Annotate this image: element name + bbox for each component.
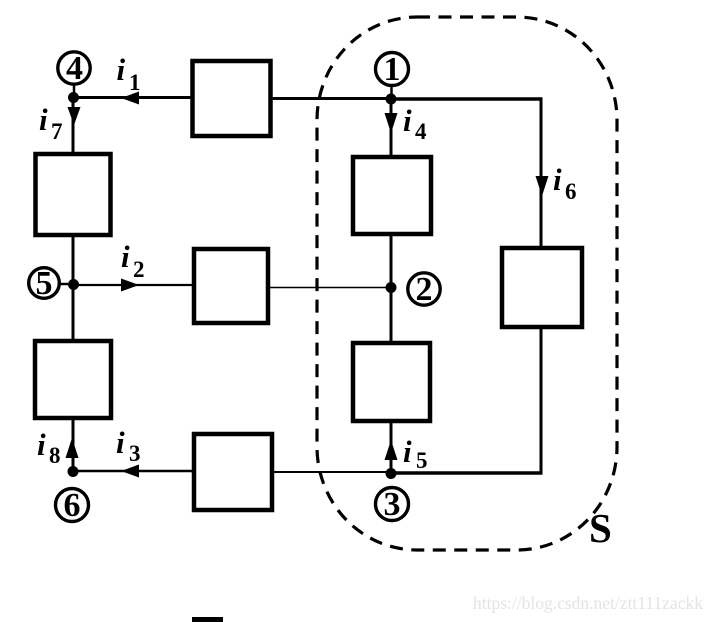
svg-text:i: i (121, 239, 130, 274)
svg-text:S: S (589, 505, 612, 551)
svg-text:6: 6 (565, 179, 577, 204)
node 1 (circled) (376, 51, 409, 94)
cropped figure edge at bottom (192, 617, 223, 622)
svg-text:2: 2 (416, 271, 433, 308)
element box bottom-middle (branch 6-3) (194, 434, 272, 510)
wire node2 down to mid-right lower box (390, 286, 393, 342)
wire bottom-middle box to node6 (73, 470, 192, 473)
svg-text:4: 4 (415, 119, 427, 144)
svg-text:7: 7 (51, 119, 63, 144)
wire node5 down to left-bottom box (72, 284, 75, 340)
svg-text:3: 3 (129, 441, 141, 466)
element box left-bottom (branch 5-6) (35, 341, 111, 418)
element box mid-right lower (branch 2-3) (353, 343, 430, 421)
wire right branch down to right box (540, 98, 543, 249)
wire mid-right upper box to node2 (390, 235, 393, 288)
current arrow i2 (pointing right from node 5) (121, 279, 139, 292)
svg-text:i: i (403, 103, 412, 138)
current arrow i5 (pointing up toward node 2 branch) (385, 440, 398, 460)
svg-text:2: 2 (133, 257, 145, 282)
wire node1 down to mid-right upper box (390, 98, 393, 156)
node 4 (circled) (58, 50, 90, 93)
junction dot node 5 (68, 279, 79, 290)
wire left-bottom box to node6 (72, 419, 75, 472)
junction dot node 6 (68, 466, 79, 477)
element box top-middle (branch 4-1) (193, 61, 271, 136)
svg-text:8: 8 (49, 443, 61, 468)
svg-text:4: 4 (66, 50, 83, 87)
svg-text:i: i (403, 434, 412, 469)
current arrow i1 (pointing left into node 4) (121, 92, 139, 105)
wire top-middle box to node1 (272, 97, 392, 100)
current arrow i3 (pointing left into node 6) (121, 465, 139, 478)
svg-text:i: i (37, 427, 46, 462)
node 5 (circled) (29, 265, 68, 302)
node 2 (circled) (408, 271, 440, 308)
wire bottom-right corner to node3 (391, 471, 543, 475)
svg-text:5: 5 (416, 448, 428, 473)
wire node4 down to left-top box (72, 96, 75, 153)
dashed closed surface S (317, 17, 617, 550)
current arrow i6 (pointing down on right branch) (536, 176, 549, 196)
node 3 (circled) (376, 486, 409, 523)
svg-text:https://blog.csdn.net/ztt111za: https://blog.csdn.net/ztt111zackk (473, 593, 703, 613)
junction dot node 4 (68, 92, 79, 103)
wire node1 to top-right corner (391, 97, 543, 101)
wire node5 to middle box (73, 284, 193, 286)
element box middle (branch 5-2) (194, 249, 268, 323)
element box mid-right upper (branch 1-2) (353, 157, 431, 234)
wire mid-right lower box to node3 (390, 422, 393, 474)
wire middle box to node2 (270, 287, 392, 289)
svg-text:1: 1 (129, 70, 141, 95)
svg-text:1: 1 (384, 51, 401, 88)
current arrow i4 (pointing down from node 1) (385, 113, 398, 133)
svg-text:5: 5 (36, 265, 53, 302)
svg-text:3: 3 (384, 486, 401, 523)
element box left-top (branch 4-5) (36, 154, 111, 235)
junction dot node 1 (386, 94, 397, 105)
svg-text:i: i (39, 102, 48, 137)
wire node3 to bottom-middle box (274, 471, 391, 473)
svg-text:i: i (117, 52, 126, 87)
junction dot node 3 (386, 468, 397, 479)
element box far-right (branch 1-3) (502, 248, 582, 327)
current arrow i7 (pointing down from node 4) (68, 107, 81, 125)
junction dot node 2 (386, 282, 397, 293)
current arrow i8 (pointing up toward box) (66, 438, 79, 458)
wire left-top box to node5 (72, 236, 75, 286)
node 6 (circled) (56, 487, 89, 524)
svg-text:i: i (553, 162, 562, 197)
wire node4 to top-middle box (73, 96, 191, 99)
svg-text:i: i (116, 425, 125, 460)
wire right box bottom down (540, 327, 543, 475)
svg-text:6: 6 (64, 487, 81, 524)
